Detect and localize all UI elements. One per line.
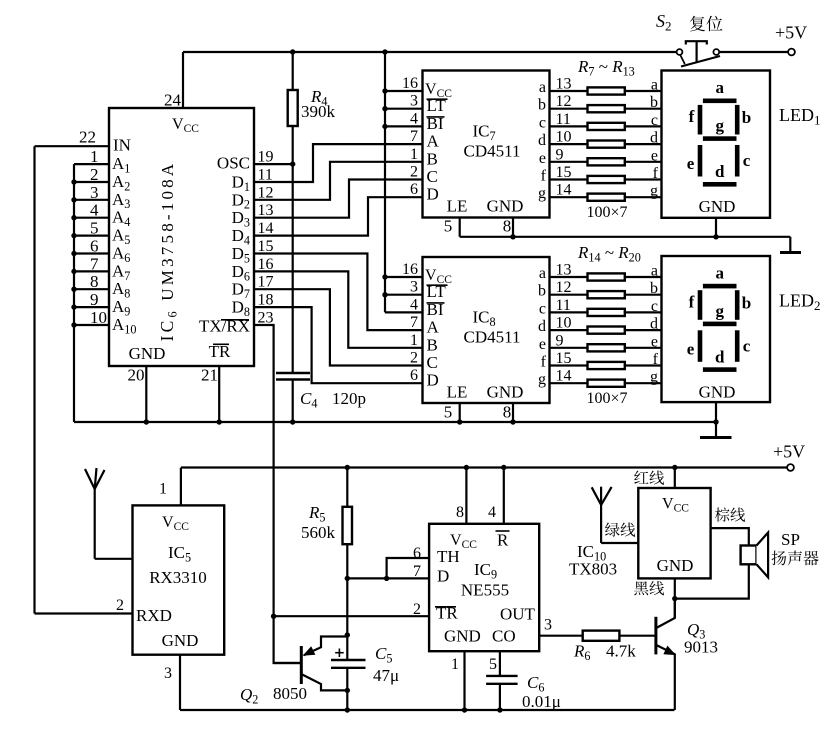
svg-text:10: 10 [556, 315, 572, 332]
svg-text:6: 6 [413, 545, 421, 562]
svg-text:d: d [538, 132, 546, 149]
svg-text:16: 16 [402, 261, 418, 278]
svg-text:7: 7 [410, 314, 418, 331]
svg-text:22: 22 [79, 128, 96, 147]
svg-text:a: a [715, 263, 724, 282]
svg-text:GND: GND [699, 382, 736, 401]
svg-text:8: 8 [90, 272, 99, 291]
svg-text:0.01μ: 0.01μ [522, 692, 561, 711]
svg-text:OUT: OUT [500, 605, 536, 624]
svg-text:OSC: OSC [217, 154, 250, 173]
svg-text:15: 15 [556, 164, 572, 181]
svg-text:a: a [651, 77, 658, 94]
svg-text:2: 2 [90, 165, 99, 184]
svg-text:2: 2 [413, 601, 421, 618]
svg-text:g: g [650, 183, 658, 200]
svg-text:c: c [651, 112, 658, 129]
svg-text:IN: IN [113, 136, 131, 155]
svg-text:15: 15 [556, 350, 572, 367]
svg-text:14: 14 [556, 368, 572, 385]
svg-text:d: d [715, 162, 725, 181]
svg-text:10: 10 [556, 129, 572, 146]
svg-text:CO: CO [492, 627, 516, 646]
svg-text:d: d [650, 316, 658, 333]
svg-text:23: 23 [258, 310, 274, 327]
svg-text:1: 1 [451, 656, 459, 673]
svg-text:11: 11 [258, 167, 273, 184]
svg-text:13: 13 [556, 262, 572, 279]
svg-text:1: 1 [159, 481, 167, 498]
svg-text:C: C [427, 353, 438, 372]
svg-text:NE555: NE555 [461, 581, 509, 600]
svg-text:16: 16 [402, 75, 418, 92]
svg-text:17: 17 [258, 274, 274, 291]
svg-text:100×7: 100×7 [586, 204, 627, 221]
svg-text:9: 9 [556, 146, 564, 163]
svg-text:8: 8 [503, 403, 512, 422]
svg-text:GND: GND [487, 383, 524, 402]
svg-text:19: 19 [258, 149, 274, 166]
svg-text:LE: LE [447, 197, 468, 216]
svg-text:24: 24 [164, 91, 182, 110]
svg-text:47μ: 47μ [373, 666, 399, 685]
svg-text:9: 9 [90, 290, 99, 309]
svg-text:14: 14 [556, 182, 572, 199]
svg-text:10: 10 [90, 308, 107, 327]
svg-text:3: 3 [90, 183, 99, 202]
svg-text:D: D [427, 371, 439, 390]
svg-text:7: 7 [413, 563, 421, 580]
svg-text:100×7: 100×7 [586, 390, 627, 407]
svg-text:4.7k: 4.7k [606, 642, 636, 661]
svg-text:a: a [651, 263, 658, 280]
svg-text:390k: 390k [301, 102, 336, 121]
svg-text:14: 14 [258, 220, 274, 237]
svg-text:3: 3 [164, 665, 172, 682]
svg-text:8: 8 [503, 217, 512, 236]
svg-text:B: B [427, 335, 438, 354]
svg-text:D: D [437, 567, 449, 586]
svg-text:2: 2 [116, 597, 124, 614]
svg-text:9: 9 [556, 332, 564, 349]
svg-text:7: 7 [410, 128, 418, 145]
svg-text:c: c [743, 336, 751, 355]
svg-text:b: b [650, 280, 658, 297]
svg-text:e: e [539, 150, 546, 167]
svg-text:1: 1 [410, 332, 418, 349]
svg-text:TX803: TX803 [569, 560, 617, 579]
svg-text:2: 2 [410, 350, 418, 367]
svg-text:3: 3 [410, 279, 418, 296]
svg-text:b: b [742, 108, 751, 127]
svg-text:b: b [650, 94, 658, 111]
svg-text:4: 4 [410, 110, 418, 127]
svg-text:5: 5 [489, 656, 497, 673]
svg-text:RXD: RXD [136, 606, 172, 625]
svg-text:2: 2 [410, 164, 418, 181]
svg-text:f: f [689, 107, 695, 126]
svg-text:f: f [541, 168, 547, 185]
svg-text:a: a [539, 79, 546, 96]
svg-text:13: 13 [258, 202, 274, 219]
svg-text:a: a [715, 78, 724, 97]
svg-text:e: e [651, 147, 658, 164]
svg-text:c: c [743, 151, 751, 170]
svg-text:e: e [651, 333, 658, 350]
svg-text:b: b [538, 97, 546, 114]
svg-text:A: A [427, 318, 440, 337]
svg-text:f: f [653, 351, 659, 368]
svg-text:f: f [689, 292, 695, 311]
svg-text:CD4511: CD4511 [464, 142, 521, 161]
svg-text:d: d [715, 347, 725, 366]
svg-text:CD4511: CD4511 [464, 328, 521, 347]
svg-text:12: 12 [258, 184, 274, 201]
svg-text:3: 3 [410, 93, 418, 110]
svg-text:d: d [538, 318, 546, 335]
svg-text:e: e [687, 154, 695, 173]
svg-text:13: 13 [556, 76, 572, 93]
svg-text:560k: 560k [301, 523, 336, 542]
svg-text:4: 4 [90, 201, 99, 220]
svg-text:4: 4 [410, 296, 418, 313]
svg-text:e: e [539, 336, 546, 353]
svg-text:g: g [715, 301, 724, 320]
svg-text:5: 5 [444, 217, 453, 236]
svg-text:6: 6 [410, 367, 418, 384]
svg-text:+5V: +5V [773, 442, 805, 462]
svg-text:g: g [650, 369, 658, 386]
svg-text:12: 12 [556, 279, 572, 296]
svg-text:B: B [427, 149, 438, 168]
svg-text:GND: GND [162, 631, 199, 650]
svg-text:1: 1 [90, 147, 99, 166]
svg-text:8: 8 [456, 504, 464, 521]
svg-text:1: 1 [410, 146, 418, 163]
svg-text:C: C [427, 167, 438, 186]
svg-text:12: 12 [556, 93, 572, 110]
svg-text:c: c [539, 300, 546, 317]
svg-text:6: 6 [90, 237, 99, 256]
svg-text:15: 15 [258, 238, 274, 255]
svg-text:20: 20 [128, 366, 145, 385]
svg-text:RX3310: RX3310 [149, 568, 207, 587]
svg-text:7: 7 [90, 254, 99, 273]
svg-text:b: b [538, 283, 546, 300]
svg-text:SP: SP [781, 530, 800, 549]
svg-text:6: 6 [410, 181, 418, 198]
svg-text:GND: GND [129, 344, 166, 363]
svg-text:a: a [539, 265, 546, 282]
svg-text:f: f [541, 354, 547, 371]
svg-text:GND: GND [487, 197, 524, 216]
svg-text:+5V: +5V [775, 23, 807, 43]
svg-text:c: c [651, 298, 658, 315]
svg-text:g: g [538, 185, 546, 202]
svg-text:21: 21 [201, 366, 218, 385]
svg-text:D: D [427, 185, 439, 204]
svg-text:9013: 9013 [684, 638, 718, 657]
svg-text:LE: LE [447, 383, 468, 402]
svg-text:4: 4 [488, 504, 496, 521]
svg-text:GND: GND [699, 197, 736, 216]
svg-text:R: R [497, 531, 509, 550]
svg-text:3: 3 [544, 617, 552, 634]
svg-text:GND: GND [657, 556, 694, 575]
svg-text:8050: 8050 [273, 684, 307, 703]
svg-text:c: c [539, 114, 546, 131]
svg-text:g: g [715, 116, 724, 135]
svg-text:11: 11 [556, 111, 571, 128]
svg-text:e: e [687, 339, 695, 358]
svg-text:d: d [650, 130, 658, 147]
svg-text:16: 16 [258, 256, 274, 273]
svg-text:f: f [653, 165, 659, 182]
svg-text:A: A [427, 132, 440, 151]
svg-text:5: 5 [444, 403, 453, 422]
svg-text:120p: 120p [332, 389, 366, 408]
svg-text:TH: TH [437, 547, 460, 566]
svg-text:18: 18 [258, 292, 274, 309]
svg-text:GND: GND [444, 627, 481, 646]
svg-text:g: g [538, 371, 546, 388]
svg-text:5: 5 [90, 219, 99, 238]
svg-text:11: 11 [556, 297, 571, 314]
svg-text:b: b [742, 293, 751, 312]
